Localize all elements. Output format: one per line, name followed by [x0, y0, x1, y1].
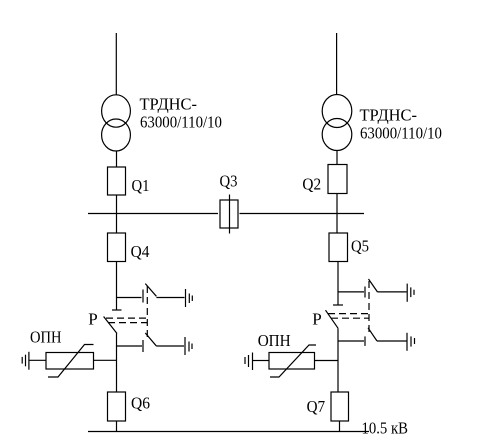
- wire Q7 to bottom bus: [339, 421, 341, 432]
- wire feeder left: [115, 33, 117, 95]
- svg-text:Q5: Q5: [351, 237, 369, 256]
- svg-text:10.5 кВ: 10.5 кВ: [362, 418, 409, 437]
- svg-text:Р: Р: [312, 310, 321, 329]
- svg-text:ОПН: ОПН: [258, 331, 291, 350]
- disconnector P right blade: [326, 310, 339, 328]
- grounding switch QS2 blade: [145, 333, 156, 346]
- ground QS2: [185, 337, 192, 355]
- wire QS3 to ground: [378, 291, 407, 293]
- grounding switch QS1 blade: [145, 284, 156, 297]
- disconnector P right fixed contact: [333, 304, 343, 306]
- grounding switch QS4 blade: [368, 328, 377, 341]
- wire ground to ОПН left: [30, 359, 47, 361]
- bus 10.5 kV: [88, 431, 369, 433]
- wire Q6 to bottom bus: [116, 421, 118, 432]
- breaker Q1: [108, 167, 126, 195]
- wire P right down to Q7: [337, 328, 339, 392]
- svg-text:Q2: Q2: [302, 175, 321, 194]
- svg-text:63000/110/10: 63000/110/10: [140, 113, 222, 132]
- ground QS3: [407, 284, 414, 302]
- wire Q5 down: [337, 262, 339, 306]
- grounding switch QS3 blade: [369, 279, 378, 292]
- svg-text:Q1: Q1: [132, 176, 150, 195]
- transformer T1: [102, 95, 131, 151]
- svg-text:Q3: Q3: [220, 171, 238, 190]
- surge arrester ОПН right: [269, 345, 316, 377]
- bus 110kV right segment: [240, 213, 365, 215]
- ground QS1: [186, 289, 193, 307]
- wire branch to top-left grounding switch: [117, 297, 142, 299]
- grounding switch QS2 contact: [142, 340, 144, 352]
- wire Q4 down: [116, 262, 118, 311]
- disconnector P left fixed contact: [112, 309, 122, 311]
- svg-text:Q4: Q4: [131, 242, 150, 261]
- svg-text:Q6: Q6: [131, 394, 150, 413]
- linkage dashed lines left: [106, 286, 147, 339]
- transformer T2: [322, 95, 352, 151]
- svg-text:Q7: Q7: [307, 397, 326, 416]
- grounding switch QS3 contact: [364, 287, 366, 298]
- breaker Q2: [328, 165, 347, 194]
- wire QS2 to ground: [156, 345, 184, 347]
- wire feeder right: [336, 33, 338, 95]
- svg-text:63000/110/10: 63000/110/10: [360, 124, 442, 143]
- wire QS1 to ground: [156, 297, 184, 299]
- ground ОПН right: [245, 353, 253, 371]
- wire Q2 to bus: [336, 194, 338, 234]
- svg-text:ОПН: ОПН: [30, 328, 62, 347]
- bus tie breaker Q3: [220, 195, 238, 234]
- wire branch to bottom-left grounding switch: [117, 345, 143, 347]
- wire branch to bottom-right grounding switch: [338, 340, 364, 342]
- ground QS4: [407, 333, 415, 351]
- wire branch to top-right grounding switch: [338, 291, 364, 293]
- ground ОПН left: [22, 352, 29, 370]
- disconnector P left blade: [104, 317, 117, 334]
- breaker Q6: [108, 392, 126, 421]
- svg-text:Р: Р: [88, 309, 97, 328]
- bus 110kV left segment: [88, 213, 218, 215]
- wire T2 to Q2: [336, 151, 338, 165]
- wire T1 to Q1: [116, 151, 118, 167]
- wire Q1 to bus: [116, 195, 118, 233]
- breaker Q4: [108, 233, 126, 262]
- wire ОПН left to node: [94, 359, 117, 361]
- linkage dashed lines right: [328, 281, 369, 333]
- wire ground to ОПН right: [253, 360, 269, 362]
- grounding switch QS1 contact: [142, 290, 144, 303]
- breaker Q5: [329, 233, 348, 262]
- wire ОПН right to node: [315, 360, 339, 362]
- svg-text:ТРДНС-: ТРДНС-: [360, 105, 418, 124]
- wire QS4 to ground: [377, 340, 407, 342]
- breaker Q7: [331, 392, 349, 421]
- svg-text:ТРДНС-: ТРДНС-: [140, 95, 198, 114]
- surge arrester ОПН left: [46, 345, 94, 378]
- wire P down to Q6: [116, 334, 118, 393]
- grounding switch QS4 contact: [364, 336, 366, 346]
